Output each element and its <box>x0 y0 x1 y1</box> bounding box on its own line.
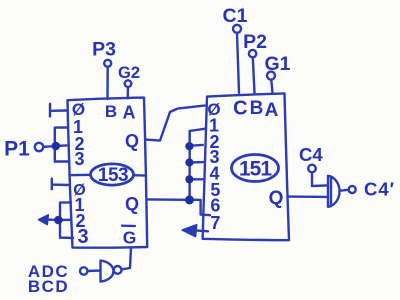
svg-text:B: B <box>250 98 264 119</box>
logic-0 arrow at 151 pin 7 <box>196 229 209 232</box>
bus stub pin 2 <box>193 144 203 147</box>
svg-text:A: A <box>265 100 279 121</box>
junction dot bus 2 <box>185 142 193 150</box>
terminal P2 <box>249 50 256 57</box>
svg-text:3: 3 <box>77 226 88 248</box>
wire 153 Q2 to bus <box>148 198 187 201</box>
svg-text:7: 7 <box>210 213 220 233</box>
bracket P1 to pins 1a 2a 3a <box>55 128 68 162</box>
IC 151 body <box>203 93 289 240</box>
terminal G2 <box>125 80 132 87</box>
svg-text:C: C <box>233 98 247 120</box>
terminal ADCBCD <box>80 267 87 274</box>
svg-text:Q: Q <box>125 131 139 151</box>
svg-text:P2: P2 <box>243 31 267 53</box>
bus vertical <box>188 131 190 201</box>
arrowhead <box>39 215 49 225</box>
svg-text:3: 3 <box>74 149 84 169</box>
wire to inverter <box>88 269 101 272</box>
svg-text:P3: P3 <box>92 39 116 61</box>
IC 153 divider line <box>70 174 147 177</box>
bus stub pin 1 <box>190 129 206 131</box>
svg-text:B: B <box>105 102 117 121</box>
svg-text:C4: C4 <box>299 144 323 165</box>
bracket to pins 1b 2b 3b <box>60 202 73 238</box>
bus stub pin 3 <box>193 161 204 164</box>
svg-text:C4′: C4′ <box>364 179 395 200</box>
svg-text:Q: Q <box>125 194 139 214</box>
wire 151 Q to gate <box>289 195 328 198</box>
logic-1 tee at 153 pin 0a <box>50 104 67 117</box>
svg-text:A: A <box>123 103 136 123</box>
junction dot arrow <box>54 216 63 225</box>
IC 153 label oval <box>91 164 134 185</box>
terminal C4out <box>349 186 356 193</box>
terminal C1 <box>233 25 241 33</box>
svg-text:G1: G1 <box>264 53 290 75</box>
wire P3 to B <box>106 67 109 99</box>
svg-text:G2: G2 <box>118 64 140 82</box>
wire 153 Q1 to 151 pin 0 <box>146 106 205 141</box>
gate U3 AND body <box>328 176 340 207</box>
wire G2 to A <box>126 87 129 98</box>
wire C4 to gate <box>312 172 328 186</box>
junction dot bus 3 <box>185 158 193 166</box>
svg-text:BCD: BCD <box>28 277 69 296</box>
svg-text:C1: C1 <box>223 5 248 27</box>
svg-text:P1: P1 <box>4 138 30 161</box>
IC 153 body <box>68 98 148 248</box>
junction dot bus 5 <box>185 195 194 204</box>
wire inverter to 153 G <box>122 247 132 269</box>
arrowhead <box>182 225 196 237</box>
wire C1 to C <box>237 33 239 93</box>
IC 151 label oval <box>232 155 279 182</box>
wire P2 to B <box>253 57 255 93</box>
logic-1 tee at 153 pin 0b <box>52 179 69 190</box>
bus stub pin 4 <box>193 178 204 180</box>
junction dot P1 <box>52 142 61 151</box>
bus stub to pin 6 <box>193 200 210 216</box>
wire P1 to junction <box>43 145 52 148</box>
svg-text:153: 153 <box>98 165 128 186</box>
inverter U4 body <box>101 261 114 282</box>
terminal P3 <box>104 60 111 67</box>
terminal P1 <box>35 143 43 151</box>
wire G1 to A <box>271 80 272 94</box>
svg-text:151: 151 <box>239 158 272 181</box>
logic-0 arrow at 153 second group <box>47 218 58 221</box>
inverter bubble <box>114 266 122 274</box>
wire gate to bubble <box>341 189 349 192</box>
svg-text:G: G <box>123 228 137 248</box>
svg-text:Q: Q <box>269 188 284 209</box>
junction dot bus 4 <box>185 175 193 183</box>
Gbar overline <box>122 225 135 228</box>
terminal G1 <box>267 72 275 80</box>
terminal C4 <box>308 165 316 173</box>
